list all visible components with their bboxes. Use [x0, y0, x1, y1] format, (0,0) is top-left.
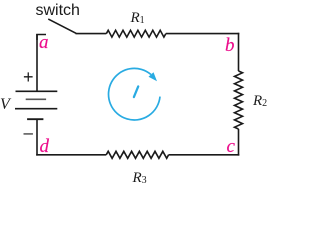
- wire switch to R1: [76, 33, 107, 35]
- node d: [40, 136, 50, 158]
- label R1: [131, 10, 145, 27]
- resistor R3: [106, 151, 168, 158]
- battery V plate 2 short gray: [26, 98, 46, 100]
- node b: [225, 35, 235, 57]
- label R2: [253, 93, 267, 110]
- resistor R2: [235, 71, 243, 129]
- label minus: [24, 123, 33, 143]
- wire R3 to node d: [36, 154, 106, 156]
- battery V plate 3 long: [15, 108, 57, 110]
- wire node c to R3: [169, 154, 240, 156]
- current loop arrowhead: [149, 72, 158, 81]
- label R3: [133, 170, 147, 187]
- wire top-left terminal stub at node a: [37, 35, 46, 41]
- node c: [227, 136, 235, 158]
- wire R2 to node c: [238, 129, 240, 156]
- switch blade: [49, 19, 76, 33]
- label plus: [23, 67, 34, 88]
- node a: [39, 32, 49, 54]
- resistor R1: [106, 30, 166, 37]
- battery V plate 4 short (bottom, -): [27, 118, 43, 120]
- wire battery top plate to node a: [36, 34, 38, 91]
- label V: [0, 96, 10, 114]
- wire R1 to node b: [166, 33, 240, 35]
- current loop arc I: [109, 68, 160, 120]
- wire node d up to battery minus plate: [36, 119, 38, 155]
- current label I (drawn stroke): [134, 87, 138, 98]
- wire node b down to R2: [238, 33, 240, 71]
- label switch: [36, 2, 80, 20]
- battery V plate 1 long (top, +): [16, 90, 58, 92]
